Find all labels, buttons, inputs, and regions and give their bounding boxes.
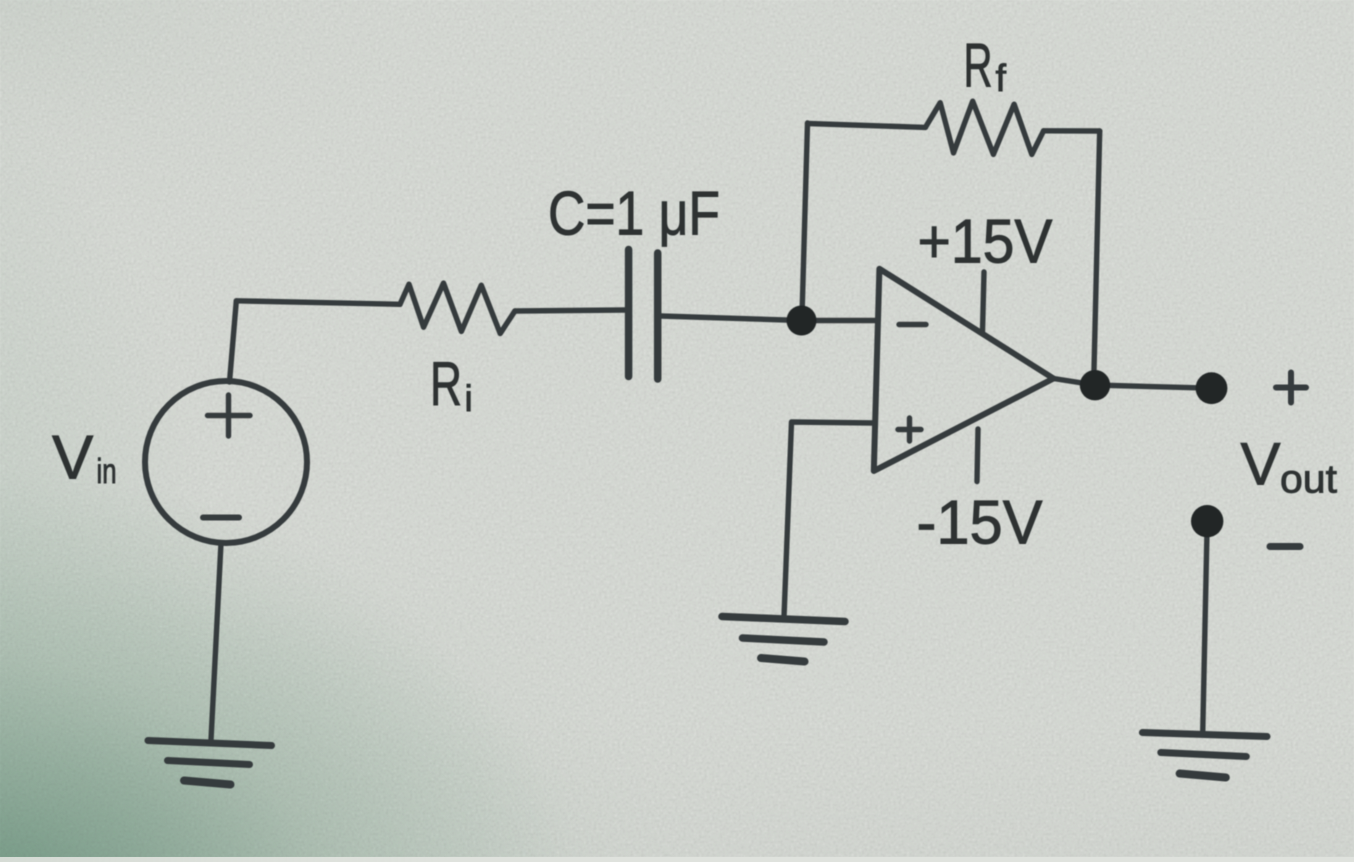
ground C bottom bar — [1180, 774, 1226, 778]
label Ri — [430, 350, 473, 419]
ground B middle bar — [743, 638, 825, 642]
output node dot — [1080, 370, 1110, 400]
-15V supply stub — [977, 429, 978, 482]
resistor Ri — [400, 283, 515, 333]
label Vout — [1241, 431, 1338, 502]
svg-text:i: i — [465, 378, 473, 419]
svg-text:V: V — [1241, 431, 1281, 498]
wire Vin bottom to ground A — [211, 543, 221, 740]
svg-text:in: in — [97, 452, 117, 491]
ground A bottom bar — [184, 781, 231, 785]
plus sign inside Vin — [208, 395, 251, 436]
wire Vin top to corner — [230, 301, 237, 382]
svg-text:f: f — [996, 58, 1007, 100]
ground B bottom bar — [761, 658, 805, 662]
capacitor C left plate — [625, 250, 633, 377]
capacitor C right plate — [654, 253, 662, 379]
feedback top wire left — [808, 124, 926, 128]
svg-text:V: V — [52, 424, 94, 493]
svg-text:-15V: -15V — [917, 489, 1044, 558]
wire Ri to capacitor — [515, 310, 625, 311]
wire top horizontal to Ri — [236, 301, 400, 305]
+15V supply stub — [983, 272, 985, 332]
minus sign inside Vin — [203, 515, 239, 521]
plus sign at output port — [1276, 373, 1306, 403]
output port - terminal dot — [1191, 505, 1223, 537]
resistor Rf — [925, 101, 1043, 154]
ground A middle bar — [168, 761, 250, 765]
wire capacitor to node A — [661, 316, 801, 321]
label Vin — [52, 424, 117, 493]
wire node A to op-amp inverting input — [801, 318, 877, 323]
svg-text:+15V: +15V — [918, 208, 1054, 277]
minus sign at output port — [1270, 543, 1300, 550]
svg-text:out: out — [1280, 458, 1337, 502]
ground C middle bar — [1161, 753, 1247, 757]
wire node A up to feedback — [802, 123, 808, 316]
wire non-inverting input to ground — [784, 422, 874, 617]
feedback right vertical wire — [1094, 131, 1100, 370]
op-amp U1 triangle — [874, 269, 1054, 471]
ground C top bar — [1142, 733, 1267, 737]
svg-text:R: R — [430, 350, 462, 419]
feedback top wire right — [1044, 128, 1100, 134]
svg-text:C=1 μF: C=1 μF — [548, 180, 720, 249]
ground A top bar — [148, 741, 272, 746]
label Rf — [964, 32, 1007, 101]
plus sign at non-inverting input — [898, 418, 921, 441]
svg-text:R: R — [964, 32, 993, 101]
node A junction dot — [787, 306, 817, 336]
output port + terminal dot — [1196, 372, 1228, 404]
output wire — [1054, 379, 1212, 389]
voltage source Vin circle — [145, 381, 307, 543]
minus sign at inverting input — [899, 322, 926, 327]
wire Vout terminal to ground C — [1203, 521, 1208, 734]
ground B under op-amp top bar — [722, 617, 845, 622]
